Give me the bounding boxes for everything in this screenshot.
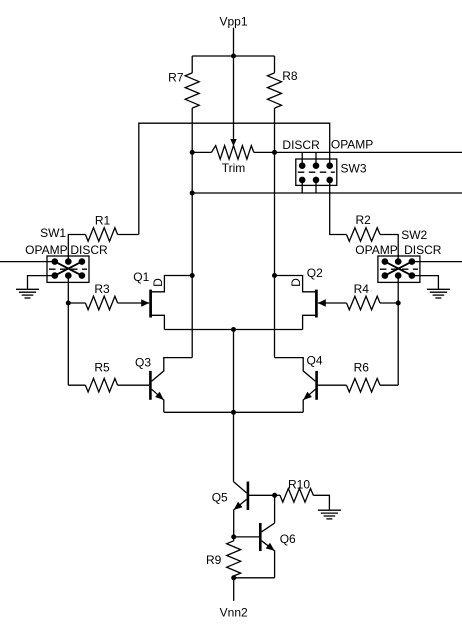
svg-text:R8: R8 [282, 69, 298, 83]
wire SW3 pin bottom-right to R2 [330, 180, 347, 235]
junction R4 node [396, 301, 401, 306]
junction bottom rail centre [231, 410, 236, 415]
wire R9 bottom lead [233, 576, 235, 578]
wire y193 feed line to right edge [192, 192, 462, 194]
label R1 [95, 214, 111, 228]
label Q5 [212, 491, 228, 505]
wire R5 to Q3 base [118, 384, 150, 386]
potentiometer Trim [211, 146, 253, 160]
label DISCR (SW2) [404, 243, 442, 257]
transistor Q2 gate arrow [318, 299, 326, 306]
transistor Q5 emitter [234, 499, 247, 537]
junction R3 node [66, 301, 71, 306]
transistor Q6 bar [259, 523, 262, 551]
label SW3 [341, 161, 367, 175]
junction Q1 drain node [190, 273, 195, 278]
label Q2 [307, 266, 323, 280]
resistor R2 [347, 228, 381, 242]
svg-text:Q4: Q4 [306, 354, 322, 368]
svg-text:R9: R9 [206, 553, 222, 567]
svg-text:R1: R1 [95, 214, 111, 228]
wire R5 left lead [68, 384, 85, 386]
label OPAMP (SW2) [355, 243, 397, 257]
svg-text:Trim: Trim [222, 161, 246, 175]
svg-text:Q5: Q5 [212, 491, 228, 505]
junction Q5 base node [272, 493, 277, 498]
label Q1 [133, 270, 149, 284]
transistor Q3 emitter arrow [155, 392, 164, 400]
label DISCR (SW1) [70, 243, 108, 257]
svg-text:R3: R3 [94, 282, 110, 296]
transistor Q4 emitter [303, 389, 315, 412]
switch SW1 [47, 256, 89, 282]
wire SW3 pin top-middle stub [315, 152, 317, 165]
label D (Q1 drain) [151, 278, 165, 287]
junction Q5 emitter node [231, 534, 236, 539]
resistor R6 [347, 378, 381, 392]
junction Vpp1 tee [231, 54, 236, 59]
svg-text:SW1: SW1 [40, 226, 66, 240]
wire left inner vertical upper [191, 152, 193, 275]
label Trim [222, 161, 246, 175]
svg-text:D: D [289, 278, 303, 287]
resistor R10 [280, 489, 313, 503]
wire tail current feed [233, 412, 235, 481]
svg-text:Q3: Q3 [135, 355, 151, 369]
wire Trim row to right edge [275, 151, 462, 153]
node Vnn2 label [220, 605, 248, 619]
resistor R7 [185, 73, 199, 108]
wire R10 left lead [275, 494, 280, 496]
label R5 [94, 360, 110, 374]
transistor Q6 collector [262, 523, 275, 532]
transistor Q5 collector [234, 482, 247, 493]
ground at R10 [318, 510, 341, 519]
label Q4 [306, 354, 322, 368]
transistor Q3 emitter [152, 389, 164, 412]
transistor Q2 drain lead [275, 276, 316, 292]
svg-text:R6: R6 [354, 360, 370, 374]
wire R4 to Q2 gate [318, 302, 347, 304]
wire R4 right lead [380, 302, 398, 304]
svg-text:DISCR: DISCR [404, 243, 442, 257]
wire Q6 collector vertical [274, 495, 276, 523]
label R10 [288, 478, 310, 492]
resistor R1 [85, 228, 117, 242]
label R9 [206, 553, 222, 567]
transistor Q1 bar [149, 290, 152, 318]
resistor R9 [227, 541, 241, 576]
transistor Q6 emitter arrow [266, 543, 275, 551]
wire opamp input line to right edge [412, 261, 462, 263]
node Vpp1 label [219, 15, 247, 29]
resistor R4 [347, 296, 381, 310]
wire SW3 pin top-left stub [301, 152, 303, 165]
transistor Q3 collector [152, 358, 193, 382]
wire SW1 ground lead [28, 276, 55, 289]
svg-text:R5: R5 [94, 360, 110, 374]
wire joined source line [164, 329, 302, 331]
junction Q2 drain node [272, 273, 277, 278]
resistor R3 [85, 296, 117, 310]
label SW2 [401, 228, 427, 242]
junction Trim right [272, 150, 277, 155]
svg-text:SW3: SW3 [341, 161, 367, 175]
transistor Q6 emitter [262, 541, 275, 578]
wire opamp input line to left edge [0, 261, 55, 263]
junction node at x192 y193 [190, 191, 195, 196]
transistor Q5 base lead [249, 494, 275, 496]
wire R10 right lead [313, 495, 329, 510]
transistor Q2 bar [315, 290, 318, 318]
wire left inner vertical lower [191, 276, 193, 358]
wire SW2 output to R4 node [397, 276, 399, 303]
wire Trim left lead [192, 151, 211, 153]
transistor Q1 drain lead [152, 276, 192, 292]
svg-text:R4: R4 [354, 282, 370, 296]
label Q6 [280, 532, 296, 546]
wire R5 feed vertical [67, 303, 69, 385]
transistor Q2 source lead [303, 315, 316, 329]
wire R1 left lead to SW1 [68, 235, 85, 262]
svg-text:SW2: SW2 [401, 228, 427, 242]
wire SW3 pin bottom-left stub [301, 180, 303, 193]
svg-text:DISCR: DISCR [282, 138, 320, 152]
svg-text:DISCR: DISCR [70, 243, 108, 257]
transistor Q4 collector [275, 358, 316, 382]
wire Vpp1 stem [233, 28, 235, 56]
wire Vnn2 stem [233, 578, 235, 601]
transistor Q3 bar [149, 371, 152, 400]
label DISCR (SW3) [282, 138, 320, 152]
svg-text:Vpp1: Vpp1 [219, 15, 247, 29]
switch SW3 [296, 159, 337, 185]
svg-text:D: D [151, 278, 165, 287]
transistor Q5 emitter arrow [234, 502, 243, 510]
switch SW2 [378, 256, 420, 282]
label OPAMP (SW1) [25, 243, 67, 257]
wire R2 right lead to SW2 [380, 235, 398, 262]
wire R3 left lead [68, 302, 85, 304]
svg-text:Vnn2: Vnn2 [220, 605, 248, 619]
svg-text:OPAMP: OPAMP [355, 243, 397, 257]
wire R8 top lead [274, 56, 276, 73]
wire R8 bottom lead [274, 108, 276, 152]
resistor R5 [85, 378, 117, 392]
wire R7 bottom lead [191, 108, 193, 152]
wire top rail [139, 123, 330, 234]
svg-text:Q1: Q1 [133, 270, 149, 284]
svg-text:OPAMP: OPAMP [25, 243, 67, 257]
wire right inner vertical upper [274, 152, 276, 275]
junction Vnn2 node [231, 575, 236, 580]
wire R6 right lead [380, 384, 398, 386]
wire Trim right lead [254, 151, 275, 153]
svg-text:R7: R7 [168, 70, 184, 84]
ground at SW2 [427, 289, 450, 298]
wire bottom emitter rail [164, 411, 303, 413]
svg-text:OPAMP: OPAMP [331, 137, 373, 151]
ground at SW1 [16, 289, 39, 298]
label R6 [354, 360, 370, 374]
wire top tee horizontal [192, 55, 274, 57]
wire Q6 emitter return [234, 577, 275, 579]
wire R3 to Q1 gate [118, 302, 150, 304]
wire R7 top lead [191, 56, 193, 73]
resistor R8 [268, 73, 282, 108]
transistor Q4 emitter arrow [303, 392, 312, 400]
wire Trim wiper stem [233, 56, 235, 140]
wiper arrow of Trim [230, 139, 236, 146]
wire R6 feed vertical [397, 303, 399, 385]
transistor Q5 bar [247, 482, 250, 511]
wire SW2 ground lead [412, 276, 439, 289]
wire R6 to Q4 base [318, 384, 347, 386]
label R4 [354, 282, 370, 296]
transistor Q1 source lead [152, 315, 165, 329]
label R8 [282, 69, 298, 83]
transistor Q1 gate arrow [141, 299, 149, 306]
transistor Q6 base lead [234, 536, 259, 538]
junction source centre node [231, 327, 236, 332]
label D (Q2 drain) [289, 278, 303, 287]
svg-text:Q2: Q2 [307, 266, 323, 280]
label R7 [168, 70, 184, 84]
junction Trim left [190, 150, 195, 155]
transistor Q4 bar [315, 371, 318, 400]
wire SW3 pin bottom-middle stub [315, 180, 317, 193]
wire right inner vertical lower [274, 276, 276, 358]
svg-text:R2: R2 [356, 213, 372, 227]
wire R9 top lead [233, 537, 235, 541]
wire SW1 output to R3 node [67, 276, 69, 303]
label R3 [94, 282, 110, 296]
label OPAMP (SW3) [331, 137, 373, 151]
label R2 [356, 213, 372, 227]
wire centre tail vertical [233, 330, 235, 413]
label SW1 [40, 226, 66, 240]
svg-text:Q6: Q6 [280, 532, 296, 546]
label Q3 [135, 355, 151, 369]
wire R1 right lead [118, 234, 139, 236]
